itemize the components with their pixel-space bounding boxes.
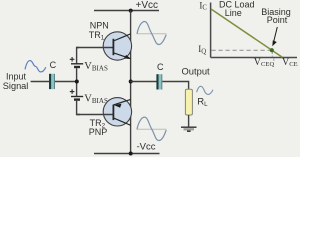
TR1 output sine baseline [137,33,167,35]
node biasing point dot [270,48,274,52]
TR2 base bar [112,105,114,121]
TR1 base lead [77,47,114,49]
battery VBIAS upper plates [71,63,83,65]
battery VBIAS lower: + sign [70,89,75,94]
wire: resistor to ground [188,115,190,127]
capacitor C (input) [49,74,51,89]
TR1 base bar [112,39,114,55]
dashed line VCEQ [271,52,273,57]
resistor RL [185,89,192,115]
transistor Q2 TR2 PNP circle [103,98,131,126]
wire: capacitor to load resistor [162,82,188,90]
transistor Q1 TR1 NPN circle [103,32,131,60]
TR2 output sine [137,117,166,140]
svg-text:Input: Input [6,71,27,81]
svg-text:+Vcc: +Vcc [136,0,159,11]
capacitor C (output) [156,74,158,89]
TR2 emitter with arrow (points into base) [113,99,130,105]
TR1 output sine [137,22,166,45]
svg-text:C: C [50,60,57,70]
wire: bias chain vertical bottom [77,101,80,115]
graph X axis [211,57,297,59]
DC load line [211,9,282,57]
wire: top +Vcc rail [94,10,159,12]
TR2 base lead [77,114,114,116]
svg-text:Output: Output [182,65,211,76]
output sine wave [197,86,213,94]
svg-text:C: C [157,62,164,72]
svg-text:Line: Line [225,8,242,18]
TR2 collector [113,118,130,125]
dashed line IQ [212,49,272,51]
wire: main vertical rail [130,11,132,154]
graph Y axis [210,3,212,58]
svg-text:Point: Point [267,15,288,25]
node: output junction dot [129,80,133,84]
svg-text:PNP: PNP [89,127,108,137]
wire: capacitor to bias junction [55,81,77,83]
svg-text:-Vcc: -Vcc [137,142,156,153]
wire: bottom -Vcc rail [94,153,160,155]
input sine wave [25,61,46,72]
TR1 collector [113,34,130,41]
node: input junction dot [75,80,79,84]
arrow to biasing point [274,27,278,42]
wire: between upper battery and input junction [76,68,78,96]
TR2 output sine baseline [137,128,167,130]
svg-text:Signal: Signal [3,81,29,91]
TR1 emitter with arrow [113,53,129,59]
battery VBIAS lower plates [71,96,83,98]
battery VBIAS upper: + sign [70,57,75,62]
ground [181,126,197,128]
svg-text:NPN: NPN [90,20,109,30]
node: +Vcc junction dot [129,9,133,13]
wire: bias chain vertical top [77,48,79,64]
wire: input to capacitor [31,81,50,83]
wire: output junction to capacitor [131,81,157,83]
node: -Vcc junction dot [129,152,133,156]
